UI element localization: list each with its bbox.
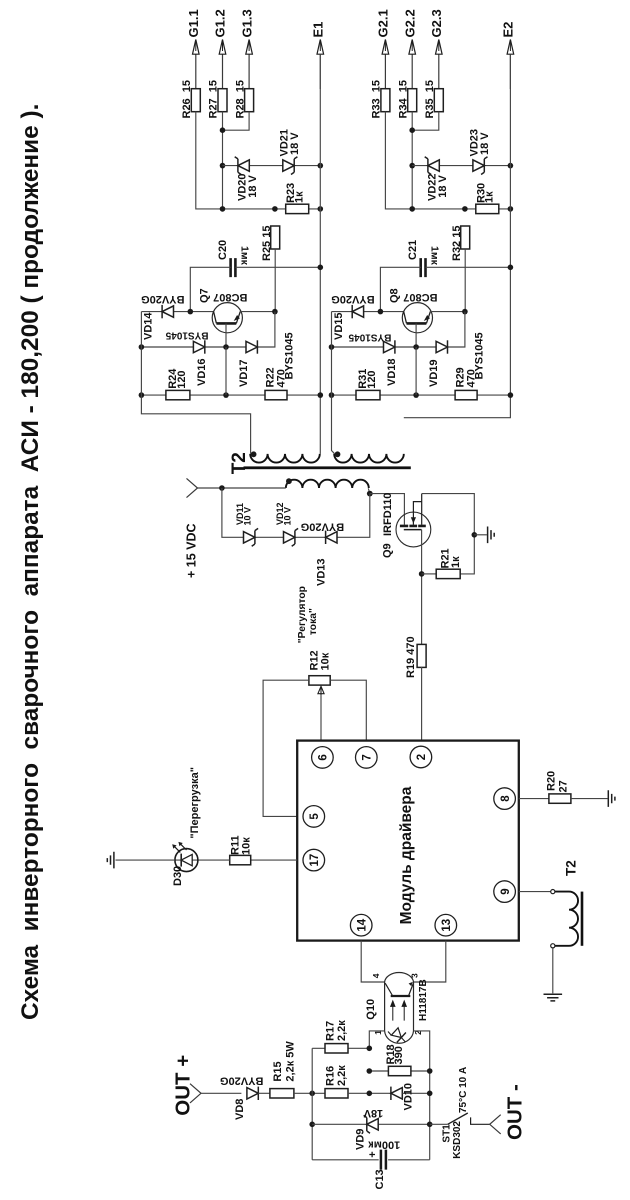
svg-text:120: 120 xyxy=(176,370,188,388)
wire opto pin 1 down xyxy=(369,1031,384,1048)
svg-text:2: 2 xyxy=(416,754,428,760)
svg-text:VD15: VD15 xyxy=(333,312,345,340)
wire D30 to ground xyxy=(116,859,176,861)
wire R25 to emitter node xyxy=(274,249,276,312)
wire Q8 base lead xyxy=(415,323,417,347)
svg-text:R26 15: R26 15 xyxy=(181,80,193,119)
pin 7 of driver module xyxy=(356,747,378,769)
svg-text:R25 15: R25 15 xyxy=(261,226,273,261)
wire Q9 source bus to R21 xyxy=(422,494,475,574)
junction R18 left xyxy=(367,1068,373,1074)
svg-text:13: 13 xyxy=(441,919,453,932)
terminal circle bottom (T2 right) xyxy=(551,944,555,948)
wire R16 to VD10 xyxy=(348,1092,391,1094)
transformer T2 feedback core xyxy=(581,892,584,946)
svg-text:R35 15: R35 15 xyxy=(424,80,436,119)
wire R15 to R16 xyxy=(294,1092,325,1094)
output arrow G2.2 xyxy=(411,54,413,89)
junction VD22 row on R34 column xyxy=(409,163,415,169)
resistor R16 2,2к xyxy=(325,1089,348,1098)
svg-text:OUT +: OUT + xyxy=(172,1055,195,1116)
connector OUT + xyxy=(190,1084,201,1103)
wire +15VDC to primary xyxy=(198,487,286,489)
resistor R33 15 xyxy=(381,89,390,112)
svg-text:BYV20G: BYV20G xyxy=(331,293,374,305)
svg-text:17: 17 xyxy=(309,854,321,867)
wire VD8 to R15 xyxy=(258,1092,270,1094)
svg-text:Q8: Q8 xyxy=(388,288,400,303)
resistor R28 15 xyxy=(245,89,254,112)
wire G1.1 column to R23 row xyxy=(196,112,320,209)
resistor R31 120 xyxy=(356,390,380,399)
wire C21 right plate to E2 xyxy=(426,266,511,268)
junction Q7 emitter node xyxy=(272,309,278,315)
svg-text:100мк: 100мк xyxy=(368,1138,400,1150)
svg-text:390: 390 xyxy=(393,1046,405,1064)
wire R32 to emitter node xyxy=(464,249,466,312)
svg-text:Q7: Q7 xyxy=(198,288,210,303)
wire Q8 base column down xyxy=(415,347,417,395)
junction R25 top xyxy=(272,206,278,212)
junction C20 row/E1 xyxy=(318,265,324,271)
wire R30 row right xyxy=(465,208,511,210)
svg-text:R28 15: R28 15 xyxy=(234,80,246,119)
wire R19 to pin 2 xyxy=(421,667,423,741)
svg-text:G1.3: G1.3 xyxy=(239,9,254,37)
wire D30 to R11 xyxy=(175,859,230,861)
zener VD23 18V xyxy=(473,160,484,171)
resistor R19 470 xyxy=(417,644,426,667)
svg-text:G1.1: G1.1 xyxy=(186,9,201,37)
output arrow G1.3 xyxy=(248,54,250,89)
svg-text:9: 9 xyxy=(500,888,512,894)
svg-text:VD13: VD13 xyxy=(316,558,328,586)
wire T2 primary to Q9 drain xyxy=(370,494,405,525)
wire left column OUT+ node xyxy=(311,1048,313,1160)
junction R28/R27 xyxy=(220,127,226,133)
junction R23/E1 xyxy=(318,206,324,212)
wire R17 row xyxy=(312,1047,369,1049)
wire pin 13 to opto pin 3 xyxy=(414,941,446,982)
junction R34 on R30 row xyxy=(409,206,415,212)
wire Q9 gate to R19 xyxy=(421,530,423,645)
wire R12 wiper to pin 6 xyxy=(320,696,322,741)
resistor R22 470 xyxy=(265,390,287,399)
wire Q7 base lead xyxy=(225,323,227,347)
svg-text:6: 6 xyxy=(318,754,330,760)
wire Q8 emitter to R32 node xyxy=(431,311,465,313)
svg-text:BYV20G: BYV20G xyxy=(141,293,184,305)
wire C21 left plate to base node xyxy=(380,267,420,311)
pin 2 of driver module xyxy=(410,746,432,768)
optocoupler Q10 H11817B xyxy=(385,972,414,1043)
junction R32 top xyxy=(462,206,468,212)
polarity dot right secondary xyxy=(335,451,341,457)
wire G2.1 column to R30 row xyxy=(385,112,465,209)
svg-text:R15: R15 xyxy=(272,1061,284,1081)
terminal circle top (T2 right) xyxy=(551,890,555,894)
transistor Q9 IRFD110 xyxy=(396,494,431,547)
transformer T2 right secondary winding xyxy=(334,454,404,463)
svg-text:Модуль драйвера: Модуль драйвера xyxy=(398,786,415,924)
wire R11 to pin 17 xyxy=(250,859,297,861)
resistor R32 15 xyxy=(461,226,470,249)
resistor R26 15 xyxy=(191,89,200,112)
junction ground branch xyxy=(472,532,478,538)
svg-text:R27 15: R27 15 xyxy=(208,80,220,119)
zener VD20 18V xyxy=(238,160,249,171)
svg-text:VD8: VD8 xyxy=(234,1099,246,1120)
pin 14 of driver module xyxy=(350,914,372,936)
pin 8 of driver module xyxy=(494,788,516,810)
wire zener row VD20 VD21 xyxy=(223,165,321,167)
resistor R11 10к xyxy=(230,855,251,864)
svg-text:2,2к: 2,2к xyxy=(336,1065,348,1086)
wire primary right end xyxy=(368,488,370,493)
transformer T2 feedback winding xyxy=(555,892,578,946)
junction +15VDC/VD11 branch xyxy=(219,485,225,491)
ground (R20) xyxy=(608,790,615,807)
diode VD18 BYS1045 xyxy=(384,341,395,352)
junction R21/gate xyxy=(419,571,425,577)
ground (D30) xyxy=(107,852,114,869)
junction base column/R31 row xyxy=(413,392,419,398)
svg-text:G2.3: G2.3 xyxy=(429,9,444,37)
junction base column/R24 row xyxy=(223,392,229,398)
resistor R29 470 xyxy=(455,390,477,399)
svg-text:120: 120 xyxy=(366,370,378,388)
capacitor C20 1мк xyxy=(231,258,236,277)
svg-text:18 V: 18 V xyxy=(247,175,259,198)
junction R27 on R23 row xyxy=(220,206,226,212)
svg-text:18 V: 18 V xyxy=(289,132,301,155)
diode VD19 BYS1045 xyxy=(436,341,447,352)
svg-text:BC807: BC807 xyxy=(213,291,247,303)
wire opto pin 2 column down xyxy=(414,1031,430,1160)
svg-text:T2: T2 xyxy=(563,860,578,876)
wire VD11 VD12 VD13 loop xyxy=(222,488,370,537)
wire Q7 emitter to R25 node xyxy=(241,311,275,313)
transformer T2 core xyxy=(244,466,411,469)
ground (T2 feedback) xyxy=(544,994,563,1001)
pin 5 of driver module xyxy=(303,806,325,828)
diode VD15 BYV20G xyxy=(352,306,363,317)
pin 17 of driver module xyxy=(303,849,325,871)
svg-text:KSD302: KSD302 xyxy=(452,1121,463,1159)
resistor R35 15 xyxy=(434,89,443,112)
zener VD22 18V xyxy=(428,160,439,171)
junction Q7 base/VD16 row xyxy=(223,344,229,350)
svg-text:R34 15: R34 15 xyxy=(397,80,409,119)
svg-text:VD9: VD9 xyxy=(354,1129,366,1150)
svg-text:10 V: 10 V xyxy=(283,507,293,526)
junction R15/R16/left column xyxy=(309,1091,315,1097)
junction Q8 collector node xyxy=(378,309,384,315)
diode VD10 xyxy=(391,1088,402,1099)
wire T2 winding to ground xyxy=(552,948,554,993)
wire R31 R29 row xyxy=(332,394,511,396)
resistor R27 15 xyxy=(218,89,227,112)
wire R20 to ground xyxy=(571,798,608,800)
svg-text:C13: C13 xyxy=(374,1169,386,1189)
junction R30/E2 xyxy=(508,206,514,212)
potentiometer R12 10к xyxy=(309,676,330,685)
svg-text:3: 3 xyxy=(409,973,419,978)
wire C20 left plate to base node xyxy=(190,267,230,311)
wire base column down xyxy=(225,347,227,395)
wire C20 right plate to E1 xyxy=(235,266,320,268)
wire VD18 VD19 row xyxy=(332,312,465,347)
transformer T2 left secondary winding xyxy=(250,454,320,463)
zener VD12 10V xyxy=(284,532,295,543)
svg-text:BC807: BC807 xyxy=(403,291,437,303)
svg-text:BYS1045: BYS1045 xyxy=(348,331,391,342)
svg-text:E2: E2 xyxy=(501,22,516,38)
wire C13 right plate to column xyxy=(388,1159,430,1161)
svg-text:VD16: VD16 xyxy=(196,358,208,386)
zener VD9 18V xyxy=(367,1119,378,1130)
junction Q8 base/VD18 row xyxy=(413,344,419,350)
svg-text:C21: C21 xyxy=(407,240,419,260)
svg-text:1к: 1к xyxy=(484,191,496,203)
ground (Q9 source) xyxy=(488,527,495,544)
svg-text:470: 470 xyxy=(466,369,478,387)
svg-text:18 V: 18 V xyxy=(479,132,491,155)
svg-text:VD18: VD18 xyxy=(386,358,398,386)
resistor R24 120 xyxy=(166,390,190,399)
transistor Q7 BC807 xyxy=(212,303,242,333)
svg-text:2,2к: 2,2к xyxy=(336,1020,348,1041)
wire R35 to R34 column xyxy=(412,112,439,131)
svg-text:10к: 10к xyxy=(241,837,253,855)
svg-text:10к: 10к xyxy=(320,652,332,670)
svg-text:1мк: 1мк xyxy=(429,246,441,266)
svg-text:Q10: Q10 xyxy=(365,999,377,1020)
wire VD16 VD17 row xyxy=(141,312,275,347)
wire to ST1 xyxy=(430,1123,448,1125)
output arrow G1.2 xyxy=(222,54,224,89)
svg-text:27: 27 xyxy=(557,780,569,792)
wire pin 14 to opto pin 4 xyxy=(361,941,384,982)
svg-text:18 V: 18 V xyxy=(437,175,449,198)
svg-text:ST1: ST1 xyxy=(441,1124,452,1143)
capacitor C21 1мк xyxy=(421,258,426,277)
junction C21 row/E2 xyxy=(508,265,514,271)
diode VD14 BYV20G xyxy=(162,306,173,317)
output arrow G2.3 xyxy=(438,54,440,89)
svg-text:G2.2: G2.2 xyxy=(402,9,417,37)
svg-text:тока": тока" xyxy=(308,608,319,635)
output arrow E2 xyxy=(509,54,511,89)
wire R34 column xyxy=(411,112,413,209)
resistor R34 15 xyxy=(408,89,417,112)
wire R24 R22 row xyxy=(141,394,320,396)
svg-text:10 V: 10 V xyxy=(242,507,252,526)
junction R29/E2 xyxy=(508,392,514,398)
resistor R17 2,2к xyxy=(325,1044,348,1053)
svg-text:R16: R16 xyxy=(325,1066,337,1086)
junction VD9 row left xyxy=(309,1122,315,1128)
wire R27 column xyxy=(222,112,224,209)
resistor R18 390 xyxy=(388,1066,411,1075)
junction R22/E1 xyxy=(318,392,324,398)
junction Q8 emitter node xyxy=(462,309,468,315)
svg-text:R19 470: R19 470 xyxy=(405,636,417,678)
wire zener row VD22 VD23 xyxy=(412,165,510,167)
wire to ground xyxy=(474,534,487,536)
svg-text:470: 470 xyxy=(275,369,287,387)
svg-text:VD17: VD17 xyxy=(238,359,250,387)
svg-text:BYV20G: BYV20G xyxy=(220,1074,263,1086)
svg-text:R32 15: R32 15 xyxy=(451,226,463,261)
svg-text:C20: C20 xyxy=(217,240,229,260)
wire VD10 to pin2 column xyxy=(402,1092,429,1094)
wire E2 column xyxy=(404,54,511,418)
resistor R15 2,2к 5W xyxy=(270,1089,294,1098)
output arrow G1.1 xyxy=(195,54,197,89)
wire R12 left to pin 5 xyxy=(263,680,309,816)
output arrow G2.1 xyxy=(384,54,386,89)
svg-text:BYS1045: BYS1045 xyxy=(165,329,208,340)
wire pin 9 to T2 winding xyxy=(519,891,551,893)
wire gate node to R21 left xyxy=(422,573,437,575)
output arrow E1 xyxy=(319,54,321,89)
junction ch2 bus/VD18 row xyxy=(329,344,335,350)
wire R18 row xyxy=(369,1070,429,1072)
resistor R21 1к xyxy=(436,569,460,578)
svg-text:"Регулятор: "Регулятор xyxy=(297,586,308,643)
wire to C13 left plate xyxy=(312,1159,379,1161)
wire VD9 row xyxy=(312,1123,430,1125)
diode VD17 BYS1045 xyxy=(246,341,257,352)
svg-text:+ 15 VDC: + 15 VDC xyxy=(185,523,199,578)
wire pin 8 to R20 xyxy=(519,798,549,800)
svg-text:D30: D30 xyxy=(172,866,184,886)
wire VD14 row xyxy=(141,311,213,313)
junction primary right xyxy=(367,491,373,497)
svg-text:R20: R20 xyxy=(545,771,557,791)
pin 13 of driver module xyxy=(435,914,457,936)
svg-text:"Перегрузка": "Перегрузка" xyxy=(189,767,201,839)
junction R17/opto pin 1 xyxy=(367,1046,373,1052)
svg-text:8: 8 xyxy=(500,795,512,802)
svg-text:VD19: VD19 xyxy=(428,359,440,387)
polarity dot left secondary xyxy=(251,451,257,457)
junction Q7 collector node xyxy=(188,309,194,315)
svg-text:5: 5 xyxy=(309,813,321,820)
wire E1 column xyxy=(319,54,321,454)
svg-text:BYV20G: BYV20G xyxy=(301,521,344,533)
pin 9 of driver module xyxy=(494,881,516,903)
driver module box Модуль драйвера xyxy=(297,741,519,941)
polarity dot primary xyxy=(286,478,292,484)
zener VD11 10V xyxy=(244,532,255,543)
svg-text:R17: R17 xyxy=(325,1021,337,1041)
pin 6 of driver module xyxy=(312,747,334,769)
resistor R30 1к xyxy=(476,204,499,213)
junction VD21/E1 xyxy=(318,163,324,169)
svg-text:1к: 1к xyxy=(293,191,305,203)
svg-text:1мк: 1мк xyxy=(239,246,251,266)
wire R12 right to pin 7 xyxy=(330,680,366,740)
junction VD10/pin2 column xyxy=(427,1091,433,1097)
svg-text:2,2к 5W: 2,2к 5W xyxy=(285,1041,297,1082)
svg-text:IRFD110: IRFD110 xyxy=(382,493,394,536)
wire ch2 bus to T2 winding xyxy=(332,312,335,454)
svg-text:G1.2: G1.2 xyxy=(213,9,228,37)
resistor R20 27 xyxy=(549,794,571,803)
transistor Q8 BC807 xyxy=(402,303,432,333)
svg-text:+: + xyxy=(367,1151,379,1157)
svg-text:75°С 10 A: 75°С 10 A xyxy=(458,1067,469,1113)
connector OUT - xyxy=(490,1115,501,1134)
junction left bus/VD16 row xyxy=(139,344,145,350)
diode VD8 BYV20G xyxy=(247,1088,258,1099)
svg-text:G2.1: G2.1 xyxy=(376,9,391,37)
svg-text:4: 4 xyxy=(371,973,381,978)
svg-text:T2: T2 xyxy=(229,452,250,474)
wire VD15 row xyxy=(332,311,404,313)
svg-text:Q9: Q9 xyxy=(381,543,393,558)
wire R28 to R27 column xyxy=(223,112,250,131)
svg-text:R11: R11 xyxy=(229,835,241,855)
diode VD16 BYS1045 xyxy=(193,341,204,352)
junction VD9/ST1 node xyxy=(427,1122,433,1128)
svg-text:E1: E1 xyxy=(311,22,326,38)
junction ch2 bus/R31 xyxy=(329,392,335,398)
svg-text:1к: 1к xyxy=(450,556,462,568)
LED D30 Перегрузка xyxy=(172,842,198,872)
svg-text:VD14: VD14 xyxy=(143,312,155,340)
junction R16/opto column xyxy=(367,1091,373,1097)
svg-text:VD10: VD10 xyxy=(403,1083,415,1111)
zener VD21 18V xyxy=(283,160,294,171)
resistor R23 1к xyxy=(286,204,309,213)
svg-text:18V: 18V xyxy=(363,1107,383,1119)
svg-text:7: 7 xyxy=(362,754,374,760)
wire OUT+ to VD8 xyxy=(201,1092,241,1094)
diode VD13 BYV20G xyxy=(326,532,337,543)
svg-text:OUT -: OUT - xyxy=(504,1084,527,1140)
junction left bus/R24 xyxy=(139,392,145,398)
svg-text:Схема инверторного сварочног: Схема инверторного сварочного аппарата А… xyxy=(17,104,44,1020)
junction R35/R34 xyxy=(409,127,415,133)
connector +15 VDC xyxy=(187,478,198,497)
wire left bus to T2 winding xyxy=(141,312,250,454)
svg-text:H11817B: H11817B xyxy=(418,979,429,1021)
junction R18 right xyxy=(427,1068,433,1074)
junction VD20 row on R27 column xyxy=(220,163,226,169)
svg-text:14: 14 xyxy=(356,918,368,931)
junction VD23/E2 xyxy=(508,163,514,169)
svg-text:R33 15: R33 15 xyxy=(371,80,383,119)
resistor R25 15 xyxy=(271,226,280,249)
transformer T2 primary winding xyxy=(286,480,369,488)
